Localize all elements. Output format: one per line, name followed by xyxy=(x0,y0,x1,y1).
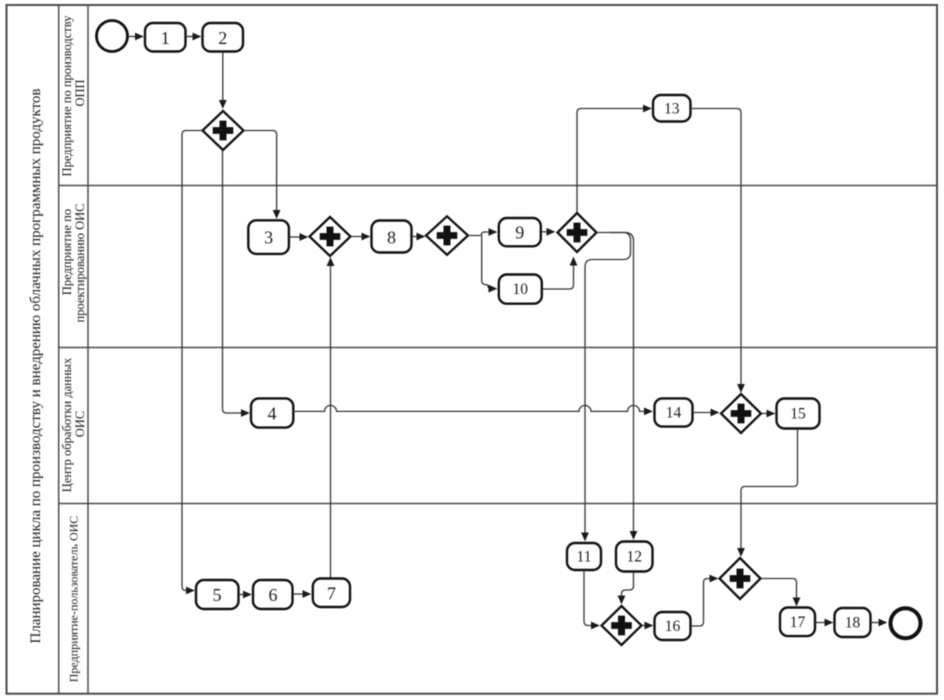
wire gateway4 to task11 xyxy=(585,233,631,541)
svg-text:10: 10 xyxy=(513,281,529,298)
gateway 3 xyxy=(426,216,468,255)
wire task3 to gateway2 xyxy=(290,236,308,238)
svg-text:Предприятие-пользователь ОИС: Предприятие-пользователь ОИС xyxy=(67,516,81,683)
task 16 xyxy=(655,612,691,640)
pool title divider xyxy=(58,5,60,694)
task 15 xyxy=(777,399,820,429)
svg-text:4: 4 xyxy=(268,403,277,423)
svg-text:Предприятие по производству: Предприятие по производству xyxy=(60,15,74,177)
task 6 xyxy=(253,580,293,609)
svg-text:5: 5 xyxy=(213,585,222,605)
svg-text:15: 15 xyxy=(790,406,806,423)
wire task4 to task14 with hops xyxy=(294,405,652,411)
svg-text:9: 9 xyxy=(515,223,524,243)
svg-text:6: 6 xyxy=(269,585,278,605)
wire task8 to gateway3 xyxy=(412,236,424,238)
wire task18 to end event xyxy=(871,622,886,624)
svg-text:14: 14 xyxy=(666,405,682,422)
task 5 xyxy=(196,580,239,609)
wire task12 to gateway6 xyxy=(622,572,634,603)
wire gateway6 to task16 xyxy=(642,625,652,627)
task 12 xyxy=(616,542,653,572)
wire gateway3 to task9 xyxy=(468,232,496,236)
wire task15 to gateway7 xyxy=(741,429,798,556)
gateway 2 xyxy=(310,217,351,256)
task 4 xyxy=(251,398,293,427)
wire gateway2 to task8 xyxy=(351,236,369,238)
wire task7 to gateway2 xyxy=(330,259,332,579)
wire task14 to gateway5 xyxy=(693,412,718,414)
wire task5 to task6 xyxy=(239,594,251,596)
svg-text:13: 13 xyxy=(664,100,680,117)
svg-text:ОИС: ОИС xyxy=(73,411,87,437)
wire gateway1 to task4 xyxy=(223,151,249,414)
start event xyxy=(97,21,128,52)
svg-text:7: 7 xyxy=(327,584,336,604)
svg-text:проектированию ОИС: проектированию ОИС xyxy=(73,204,87,323)
wire task2 to gateway1 xyxy=(222,52,224,108)
task 1 xyxy=(145,23,186,52)
wire gateway3 to task10 xyxy=(482,236,496,289)
wire gateway4 to task12 xyxy=(610,233,634,539)
gateway 4 xyxy=(558,213,597,252)
lane 2 label xyxy=(60,204,87,323)
svg-text:Планирование цикла по производ: Планирование цикла по производству и вне… xyxy=(28,88,44,643)
gateway 7 xyxy=(720,558,761,599)
wire task17 to task18 xyxy=(816,622,833,624)
gateway 6 xyxy=(602,606,642,645)
svg-text:2: 2 xyxy=(218,28,227,48)
svg-text:8: 8 xyxy=(387,228,396,248)
svg-text:12: 12 xyxy=(626,549,642,566)
lane boundary 2-3 xyxy=(59,347,937,349)
svg-text:18: 18 xyxy=(845,614,861,631)
wire gateway7 to task17 xyxy=(761,579,797,606)
lane 1 label xyxy=(60,15,87,177)
svg-text:1: 1 xyxy=(161,28,170,48)
svg-text:3: 3 xyxy=(264,228,273,248)
svg-text:Центр обработки данных: Центр обработки данных xyxy=(60,357,74,492)
wire task1 to task2 xyxy=(186,36,200,38)
svg-text:16: 16 xyxy=(665,618,681,635)
wire gateway1 to task3 xyxy=(244,131,277,218)
wire task11 to gateway6 xyxy=(584,571,599,626)
wire task10 to gateway4 xyxy=(542,258,573,289)
wire task9 to gateway4 xyxy=(541,231,554,233)
svg-text:11: 11 xyxy=(577,549,592,566)
svg-text:17: 17 xyxy=(790,614,806,631)
svg-text:ОПП: ОПП xyxy=(73,79,87,106)
gateway 5 xyxy=(721,394,761,433)
task 9 xyxy=(499,218,541,246)
svg-text:Предприятие по: Предприятие по xyxy=(60,209,74,295)
lane 3 label xyxy=(60,357,87,492)
task 8 xyxy=(372,221,412,253)
wire gateway4 to task13 xyxy=(577,109,651,214)
task 14 xyxy=(655,398,693,426)
lane boundary 1-2 xyxy=(59,185,937,187)
gateway 1 xyxy=(203,111,244,150)
task 17 xyxy=(780,608,815,637)
wire gateway1 to task5 xyxy=(182,131,203,591)
task 13 xyxy=(653,95,691,122)
end event xyxy=(891,608,921,638)
lane label divider xyxy=(87,5,89,694)
wire task13 to gateway5 xyxy=(691,109,742,392)
lane boundary 3-4 xyxy=(59,503,937,505)
wire start to task1 xyxy=(128,36,143,38)
wire gateway5 to task15 xyxy=(762,413,775,415)
wire task6 to task7 xyxy=(293,593,310,595)
wire task16 to gateway7 xyxy=(691,579,717,627)
task 18 xyxy=(835,608,871,637)
task 7 xyxy=(313,579,350,608)
task 11 xyxy=(567,543,601,570)
task 3 xyxy=(248,220,289,254)
task 10 xyxy=(499,275,542,304)
task 2 xyxy=(203,23,244,52)
